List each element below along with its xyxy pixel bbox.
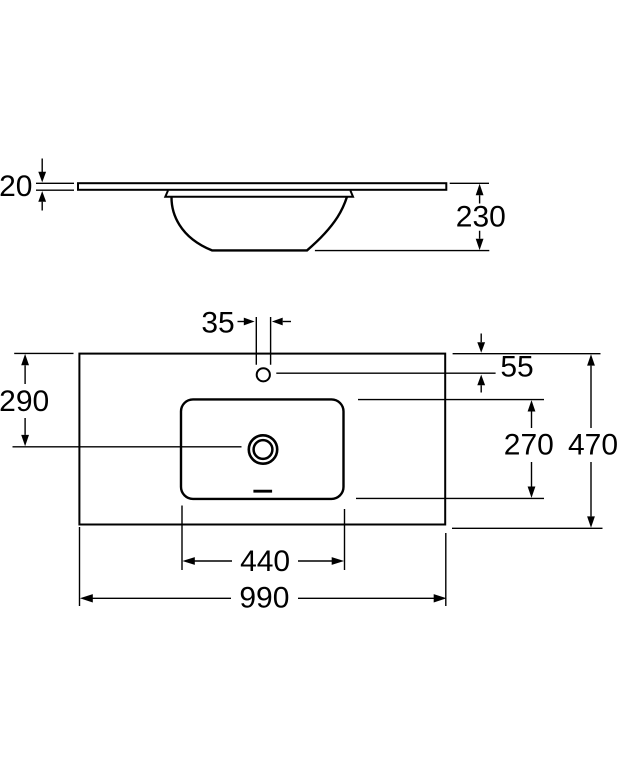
svg-text:270: 270 xyxy=(504,429,554,462)
svg-text:35: 35 xyxy=(201,306,234,339)
svg-text:230: 230 xyxy=(456,201,506,234)
svg-text:290: 290 xyxy=(0,385,49,418)
svg-text:470: 470 xyxy=(568,429,618,462)
svg-text:990: 990 xyxy=(239,581,289,614)
svg-text:440: 440 xyxy=(240,545,290,578)
svg-text:55: 55 xyxy=(500,351,533,384)
svg-text:20: 20 xyxy=(0,170,32,203)
